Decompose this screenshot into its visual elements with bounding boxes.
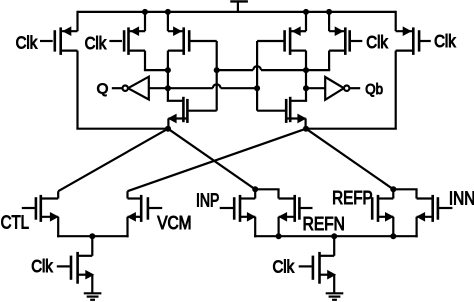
transistor M13 input NMOS INN [416, 195, 452, 222]
svg-text:REFP: REFP [332, 188, 373, 208]
transistor M8 input NMOS VCM [127, 195, 162, 222]
svg-text:REFN: REFN [303, 214, 345, 234]
wire M11 source to tail rail [278, 217, 280, 236]
wire node A to node B [167, 70, 169, 88]
label Clk (M6 gate) [434, 31, 456, 51]
label Clk (M9 gate) [31, 256, 53, 276]
wire M8 drain riser [126, 191, 128, 198]
wire M7 drain riser [57, 191, 59, 198]
junction node A left [165, 67, 171, 73]
wire node XL to INP/REFN drains (diagonal) [168, 129, 255, 190]
wire M12 drain riser [392, 189, 394, 198]
wire node XR to REFP/INN drains (diagonal) [306, 129, 393, 190]
svg-text:CTL: CTL [1, 212, 29, 232]
transistor M4 cross-coupled PMOS right [257, 26, 306, 55]
wire M10 drain riser [254, 189, 256, 198]
wire M3 drain to node A [167, 51, 169, 71]
junction M12 source-rail [390, 233, 396, 239]
junction node A right [303, 67, 309, 73]
transistor N1 cross-coupled NMOS left [168, 97, 217, 124]
ground left [84, 293, 102, 300]
transistor M2 reset PMOS (inner left) [109, 26, 145, 55]
label INP [196, 191, 219, 211]
svg-text:Q: Q [97, 80, 109, 97]
label REFN [303, 214, 345, 234]
label Clk (M1 gate) [16, 33, 38, 53]
inverter U1 (Q output) [112, 77, 149, 100]
transistor M6 reset PMOS (outer right) [396, 26, 431, 55]
junction tail left [89, 233, 95, 239]
wire line A (gate cross-coupling) [217, 66, 306, 70]
transistor M11 reference NMOS REFN [278, 195, 312, 222]
svg-text:Clk: Clk [16, 33, 38, 53]
svg-text:Clk: Clk [434, 31, 456, 51]
wire M14 drain to tail junction [333, 236, 335, 256]
svg-text:Clk: Clk [273, 256, 295, 276]
junction M11 source-rail [276, 233, 282, 239]
junction node B left [165, 85, 171, 91]
wire M3 source to rail [167, 12, 169, 31]
wire M3 gate dropper [216, 41, 218, 70]
wire M4 source to rail [305, 12, 307, 31]
wire node B to N1 gate [167, 88, 183, 101]
transistor N2 cross-coupled NMOS right [257, 97, 306, 124]
wire VDD rail [78, 11, 396, 13]
label INN [449, 189, 474, 209]
wire M1 drain to node XL [76, 51, 168, 129]
label Clk (M14 gate) [273, 256, 295, 276]
label Q [97, 80, 109, 97]
wire M1 source to rail [76, 11, 78, 31]
wire M5 source to rail [328, 12, 330, 31]
transistor M3 cross-coupled PMOS left [168, 26, 217, 55]
junction M4 source-rail [303, 9, 309, 15]
wire M4 drain to node A-right [305, 51, 307, 71]
wire N2 source to node XR [305, 119, 307, 129]
junction line A start [214, 67, 220, 73]
wire N1 drain dropper to line A [216, 70, 218, 111]
VDD supply symbol [230, 1, 248, 12]
svg-text:VCM: VCM [157, 213, 191, 233]
wire tail rail left [57, 235, 129, 237]
transistor M7 input NMOS CTL [22, 195, 59, 222]
transistor M9 tail NMOS left [57, 252, 95, 284]
junction tail right [331, 233, 337, 239]
wire N2 drain dropper to line B [256, 88, 258, 111]
junction node B right [303, 85, 309, 91]
svg-text:INN: INN [449, 189, 474, 209]
wire M9 source to ground [91, 275, 93, 293]
label Qb [365, 81, 383, 98]
junction line B end [254, 85, 260, 91]
wire line B (gate cross-coupling) [149, 84, 257, 88]
junction M3 source-rail [165, 9, 171, 15]
svg-text:Qb: Qb [365, 81, 383, 98]
inverter U2 (Qb output) [325, 77, 360, 100]
svg-text:INP: INP [196, 191, 219, 211]
junction REFP/INN drain node [390, 186, 396, 192]
junction M5 source-rail [326, 9, 332, 15]
wire M6 drain to node XR [306, 51, 397, 129]
ground right [326, 293, 344, 300]
wire M14 source to ground [333, 275, 335, 293]
label Clk (M2 gate) [85, 33, 107, 53]
wire N1 source to node XL [167, 119, 169, 129]
transistor M10 input NMOS INP [220, 195, 256, 222]
label CTL [1, 212, 29, 232]
svg-text:Clk: Clk [366, 32, 388, 52]
wire line B right to Qb inverter [306, 87, 325, 89]
transistor M1 reset PMOS (outer left) [40, 26, 78, 55]
transistor M12 reference NMOS REFP [372, 195, 394, 222]
wire M13 source to tail rail [416, 217, 418, 238]
wire M2 drain to node A [144, 51, 168, 71]
junction node XL [165, 126, 171, 132]
wire M10 source to tail rail [254, 217, 256, 238]
svg-text:Clk: Clk [85, 33, 107, 53]
wire M5 drain to node A-right [306, 51, 330, 71]
wire node B-right to N2 gate [291, 88, 307, 101]
label VCM [157, 213, 191, 233]
wire M8 source to tail rail [126, 217, 128, 238]
wire tail rail right [254, 235, 418, 237]
junction node XR [303, 126, 309, 132]
label REFP [332, 188, 373, 208]
wire M11 drain jog to drain node [255, 189, 279, 198]
wire node A-right down to node B-right [305, 70, 307, 88]
label Clk (M5 gate) [366, 32, 388, 52]
wire M9 drain to tail junction [91, 236, 93, 256]
junction INP/REFN drain node [252, 186, 258, 192]
wire M13 drain jog to drain node [393, 189, 417, 198]
svg-text:Clk: Clk [31, 256, 53, 276]
wire node XR to VCM drain (diagonal) [128, 129, 307, 192]
transistor M14 tail NMOS right [299, 252, 337, 284]
wire node XL to CTL-pair drain (diagonal) [58, 129, 168, 192]
wire M6 source to rail [395, 11, 397, 31]
wire M2 source to rail [144, 12, 146, 31]
transistor M5 reset PMOS (inner right) [329, 26, 362, 55]
wire M7 source to tail rail [57, 217, 59, 238]
junction M2 source-rail [142, 9, 148, 15]
wire M4 gate dropper [256, 41, 258, 88]
wire M12 source to tail rail [392, 217, 394, 236]
